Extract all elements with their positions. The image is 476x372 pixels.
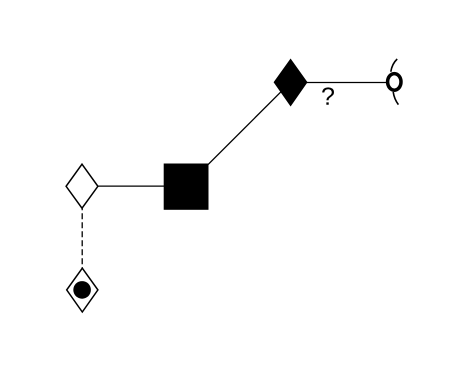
- residue: open diamond: [66, 164, 98, 208]
- parenthesis mark at reducing end (lower arc): [393, 92, 398, 105]
- linkage label ?: [322, 87, 334, 104]
- residue: filled square: [164, 164, 209, 210]
- wire: dashed link, open diamond to bottom diamond: [81, 186, 83, 290]
- parenthesis mark at reducing end (upper arc): [391, 59, 397, 72]
- wire: filled diamond to circle: [291, 82, 395, 84]
- wire: filled square to filled diamond (diagonal): [186, 82, 291, 186]
- residue: open diamond with filled dot: [67, 268, 98, 312]
- residue: filled diamond: [274, 59, 307, 105]
- residue: open circle (reducing end): [388, 74, 401, 91]
- filled dot inside bottom diamond: [73, 281, 91, 299]
- wire: open diamond to filled square: [82, 185, 186, 187]
